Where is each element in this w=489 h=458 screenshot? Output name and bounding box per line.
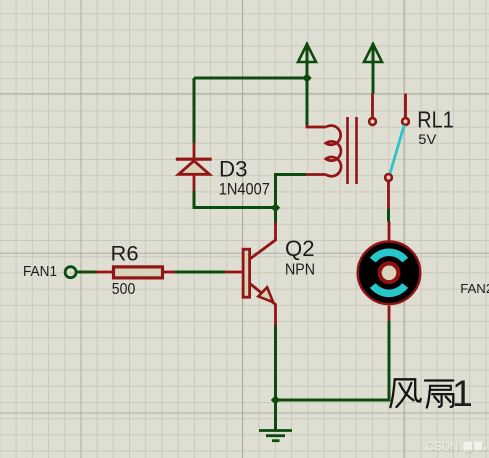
svg-text:R6: R6 — [111, 242, 139, 266]
svg-text:1: 1 — [452, 372, 473, 414]
svg-text:5V: 5V — [418, 131, 437, 147]
svg-text:FAN2: FAN2 — [460, 281, 489, 296]
svg-text:FAN1: FAN1 — [23, 263, 57, 280]
svg-text:1N4007: 1N4007 — [219, 180, 270, 198]
svg-text:D3: D3 — [219, 157, 248, 182]
svg-text:RL1: RL1 — [417, 107, 454, 133]
svg-text:Q2: Q2 — [285, 236, 315, 261]
svg-text:500: 500 — [112, 281, 136, 298]
svg-text:NPN: NPN — [285, 262, 315, 279]
